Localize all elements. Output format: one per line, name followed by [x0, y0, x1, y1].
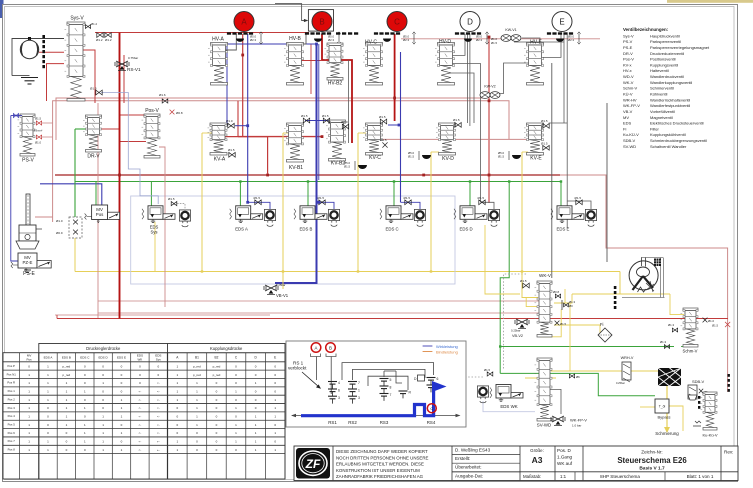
label psv area	[34, 129, 43, 133]
wire red kvD feed	[382, 138, 528, 140]
svg-text:<-: <-	[139, 448, 142, 452]
svg-text:Halteventil: Halteventil	[650, 68, 669, 73]
dashed shaft line	[42, 35, 45, 68]
orifice wkv r2	[555, 321, 567, 326]
svg-text:Überarbeitet:: Überarbeitet:	[455, 464, 482, 470]
wire yellow kv drops	[155, 133, 561, 337]
svg-text:WK-V: WK-V	[623, 80, 634, 85]
wire salmon y315	[55, 314, 270, 316]
svg-text:Ø1.0: Ø1.0	[35, 141, 42, 145]
orifice kvb1	[301, 114, 310, 123]
orifice wk-v	[520, 279, 529, 288]
svg-text:KV-E: KV-E	[530, 156, 542, 162]
svg-text:EDS C: EDS C	[386, 227, 399, 232]
junctions blue	[246, 43, 400, 204]
svg-text:Schmierventil: Schmierventil	[650, 86, 674, 91]
svg-text:Pos 5: Pos 5	[8, 423, 16, 427]
valve EDS E	[551, 206, 597, 227]
svg-text:Vorbefüllventil: Vorbefüllventil	[650, 109, 675, 114]
svg-text:Schm-V: Schm-V	[623, 86, 638, 91]
svg-text:B: B	[319, 18, 324, 27]
svg-text:<-: <-	[157, 398, 160, 402]
svg-text:Pos: Pos	[96, 212, 104, 217]
svg-text:Ventilbezeichnungen:: Ventilbezeichnungen:	[623, 27, 669, 32]
svg-text:Magnetventil: Magnetventil	[650, 115, 673, 120]
orifice kvd	[453, 118, 461, 127]
svg-text:Ø1.5: Ø1.5	[380, 138, 387, 142]
svg-text:Schm-V: Schm-V	[683, 349, 698, 354]
wire red bottom-left rise	[56, 315, 58, 319]
svg-text:A: A	[315, 346, 318, 351]
orifice kva bot	[228, 148, 235, 157]
svg-text:B1: B1	[195, 356, 199, 360]
svg-text:Kupplungsdrücke: Kupplungsdrücke	[210, 346, 243, 351]
svg-text:Ø1.0: Ø1.0	[226, 119, 233, 123]
torque converter	[622, 258, 665, 298]
wire gray edsD gauge	[481, 202, 494, 209]
svg-text:B2: B2	[215, 356, 219, 360]
svg-text:0.25bar: 0.25bar	[616, 381, 625, 385]
svg-text:Ø1.5: Ø1.5	[560, 322, 567, 326]
wire blue kva-eds	[235, 34, 248, 202]
svg-text:ZF: ZF	[305, 457, 321, 471]
svg-text:WD-V: WD-V	[623, 74, 634, 79]
filter Fi	[598, 322, 612, 342]
svg-text:EDS D: EDS D	[99, 356, 109, 360]
valve EDS-WK	[477, 385, 523, 403]
port labels D	[476, 32, 489, 44]
wire red kva drop	[237, 101, 239, 137]
svg-text:RS4: RS4	[427, 420, 436, 425]
wire blue kvc-eds	[388, 52, 401, 202]
actuator PS-E	[16, 194, 42, 249]
svg-text:Ø2.3: Ø2.3	[476, 38, 483, 42]
svg-text:Kupplungsventil: Kupplungsventil	[650, 62, 678, 67]
svg-text:Ø1.5: Ø1.5	[478, 196, 485, 200]
orifice posv	[170, 110, 183, 115]
wire thick red main x119	[119, 33, 121, 319]
label PS-E	[23, 271, 35, 277]
svg-text:WK-FP-V: WK-FP-V	[570, 418, 587, 423]
svg-text:Ø6: Ø6	[576, 375, 580, 379]
svg-text:Pos. D: Pos. D	[557, 448, 571, 453]
dotted wk line	[455, 274, 526, 377]
label Sys-V	[70, 16, 84, 22]
svg-text:Pos-V: Pos-V	[145, 108, 159, 114]
wire green staircase	[500, 373, 655, 395]
valve EDS D	[454, 206, 500, 227]
svg-text:ZAHNRADFABRIK FRIEDRICHSHAFEN: ZAHNRADFABRIK FRIEDRICHSHAFEN AG	[336, 474, 424, 479]
valve EDS B	[294, 206, 340, 227]
wire lavender edswk	[483, 401, 535, 412]
orifice psv red2	[35, 135, 53, 144]
svg-text:Fi: Fi	[600, 322, 604, 327]
clutch circle D	[460, 12, 480, 32]
wire lblue posv	[101, 93, 158, 205]
ports B right	[336, 32, 358, 34]
cooler	[658, 368, 681, 386]
wire gray B stub	[300, 34, 306, 44]
wire blue hva drop	[226, 44, 228, 126]
svg-text:<-: <-	[139, 390, 142, 394]
svg-text:E: E	[559, 18, 564, 27]
wire red bus y318	[57, 318, 728, 320]
svg-text:1:1: 1:1	[560, 474, 567, 479]
pump	[20, 39, 38, 59]
svg-text:1.0 bar: 1.0 bar	[572, 424, 581, 428]
junctions green	[239, 180, 562, 347]
wire dark-red bus y173	[55, 174, 560, 176]
valve KV-C	[363, 123, 383, 155]
svg-text:p_red: p_red	[193, 364, 201, 368]
svg-text:WK-V: WK-V	[539, 273, 552, 278]
wire blue A-B top	[227, 43, 317, 45]
valve WK-V	[535, 281, 553, 337]
valve EDS-Sys	[142, 206, 191, 227]
orifice EDS E	[575, 196, 583, 205]
valve KV-E	[524, 123, 544, 155]
svg-text:p_red: p_red	[213, 373, 221, 377]
svg-text:Erstellt:: Erstellt:	[455, 456, 470, 461]
label KV-B1	[289, 165, 303, 171]
svg-text:Ø1.5: Ø1.5	[379, 115, 386, 119]
svg-text:<-: <-	[139, 406, 142, 410]
svg-text:Ø1.3: Ø1.3	[668, 323, 675, 327]
svg-text:Ø2.3: Ø2.3	[250, 38, 257, 42]
svg-text:Ø1.2: Ø1.2	[96, 38, 103, 42]
svg-text:EDS A: EDS A	[235, 227, 248, 232]
orifice edswk	[484, 368, 493, 376]
wire red C drop	[394, 34, 396, 121]
orifice kuku	[712, 322, 730, 328]
svg-text:B: B	[329, 346, 332, 351]
label Schm-V	[683, 349, 698, 354]
wire gray b2 drop	[348, 60, 350, 143]
wire pale-red bus y98	[56, 98, 484, 140]
port labels B	[328, 32, 341, 44]
svg-text:<-: <-	[139, 415, 142, 419]
svg-text:Sys-V: Sys-V	[70, 16, 84, 22]
valve HV-B	[284, 43, 304, 86]
clutch circle E	[552, 12, 572, 32]
svg-text:Ø1.0: Ø1.0	[341, 120, 348, 124]
valve Pos-V	[142, 114, 161, 158]
wire gray D drops	[449, 34, 480, 202]
svg-text:Pos 4: Pos 4	[8, 414, 16, 418]
wire gray A stub	[225, 34, 236, 50]
svg-text:Ø1.2: Ø1.2	[91, 22, 98, 26]
checkvalve kvc	[380, 138, 388, 148]
valve HV-A	[208, 43, 228, 86]
label KV-A	[214, 157, 226, 163]
orifice EDS D	[478, 196, 486, 205]
svg-text:Blatt: 1 von 1: Blatt: 1 von 1	[687, 474, 714, 479]
svg-text:Pos R: Pos R	[7, 381, 15, 385]
orifice wkfp feed	[569, 374, 580, 379]
valve HV-C	[363, 43, 383, 86]
orifice schm feed	[660, 340, 670, 348]
svg-text:7: 7	[358, 381, 360, 385]
svg-text:HV-A: HV-A	[212, 37, 224, 43]
svg-text:KW-V2: KW-V2	[484, 85, 495, 89]
orifice EDS C	[404, 196, 412, 205]
valve MV-Pos	[85, 205, 120, 223]
clutch circle A	[234, 12, 254, 32]
svg-text:Ø2.3: Ø2.3	[403, 38, 410, 42]
svg-text:Steuerschema E26: Steuerschema E26	[617, 456, 687, 465]
svg-text:Ø1.0: Ø1.0	[708, 319, 715, 323]
svg-text:WK-FP-V: WK-FP-V	[623, 103, 640, 108]
wire gray kw-v2 link	[497, 63, 543, 94]
svg-text:EDS A: EDS A	[44, 356, 53, 360]
svg-text:p_red: p_red	[213, 364, 221, 368]
label EDS-Sys	[150, 225, 159, 235]
wire yellow left drop	[74, 238, 76, 272]
svg-text:VB-V1: VB-V1	[276, 293, 289, 298]
table clutch logic	[3, 344, 285, 480]
svg-text:Ø1.5: Ø1.5	[491, 41, 498, 45]
svg-text:D. Weßling ES43: D. Weßling ES43	[455, 448, 491, 453]
svg-text:7: 7	[390, 393, 392, 397]
svg-text:0.25bar: 0.25bar	[511, 329, 521, 333]
svg-text:Ø1.5: Ø1.5	[318, 196, 325, 200]
svg-text:Pos N1: Pos N1	[7, 372, 17, 376]
svg-text:0.25bar: 0.25bar	[276, 283, 286, 287]
junctions yellow	[201, 270, 523, 272]
svg-text:Parksperrenventil: Parksperrenventil	[650, 39, 681, 44]
wire salmon bus y301	[98, 300, 545, 302]
port labels A	[250, 32, 263, 44]
svg-text:Ø1.5: Ø1.5	[168, 197, 175, 201]
dots kuku	[698, 374, 730, 409]
wire green mvpos	[95, 182, 97, 206]
svg-text:verblockt: verblockt	[288, 366, 307, 371]
wire gray hvb box	[275, 4, 308, 23]
ports A	[227, 32, 253, 42]
wire yellow bus y267	[75, 271, 620, 273]
wire red sysv drain	[47, 64, 65, 101]
svg-text:Maßstab:: Maßstab:	[523, 474, 541, 479]
wire pale-red x98	[97, 103, 99, 319]
svg-text:Ku-KÜ-V: Ku-KÜ-V	[623, 132, 639, 137]
svg-text:3: 3	[358, 396, 360, 400]
valve Sys-V	[65, 22, 86, 101]
svg-text:Ø1.5: Ø1.5	[228, 148, 235, 152]
label RS-V1	[127, 56, 141, 72]
svg-text:Pos 8: Pos 8	[8, 448, 16, 452]
valve WRH-V	[616, 356, 634, 385]
label KV-B2	[331, 161, 345, 167]
label KV-E	[530, 156, 542, 162]
svg-text:Wandlerfestpunktventil: Wandlerfestpunktventil	[650, 103, 690, 108]
label HV-E	[530, 40, 542, 46]
svg-text:EDS B: EDS B	[62, 356, 71, 360]
svg-text:SV-WD: SV-WD	[537, 423, 551, 428]
port labels C	[403, 32, 416, 44]
svg-text:DR-V: DR-V	[87, 154, 100, 160]
svg-text:6: 6	[338, 389, 340, 393]
svg-text:Ø1.5: Ø1.5	[408, 155, 415, 159]
svg-text:<-: <-	[157, 423, 160, 427]
ground	[21, 78, 38, 85]
svg-text:DIESE ZEICHNUNG DARF WEDER KOP: DIESE ZEICHNUNG DARF WEDER KOPIERT	[336, 449, 428, 454]
labels hv-d orifices	[491, 37, 498, 45]
box around B	[308, 10, 333, 32]
svg-text:4: 4	[338, 381, 340, 385]
valve HV-E	[524, 43, 544, 86]
wire pale-red right path	[560, 175, 728, 392]
svg-text:Ø0.9: Ø0.9	[56, 231, 63, 235]
svg-text:Ø1.5: Ø1.5	[404, 196, 411, 200]
dashed orifice box	[56, 217, 82, 238]
wire red sysv top	[95, 32, 309, 34]
svg-text:WK: WK	[137, 357, 142, 361]
svg-text:Rev:: Rev:	[724, 450, 733, 455]
wire blue B main	[275, 44, 317, 283]
svg-text:Ø1.2: Ø1.2	[105, 38, 112, 42]
wire red x124	[123, 55, 125, 103]
valve SDB-V	[688, 379, 708, 426]
clutch port	[498, 151, 521, 160]
orifice kvb2 r	[341, 120, 349, 129]
svg-text:E: E	[274, 356, 276, 360]
svg-text:Ø1.5: Ø1.5	[484, 368, 491, 372]
wire red x489	[488, 37, 490, 203]
svg-text:p_red: p_red	[63, 373, 71, 377]
orifice wk-v r	[553, 290, 561, 298]
orifice psv blue	[13, 114, 18, 118]
wire red A drop	[242, 34, 244, 137]
wire blue edsB gauge	[319, 202, 334, 209]
svg-text:1.Gang: 1.Gang	[557, 455, 573, 460]
orifice top pair	[96, 33, 112, 42]
orifice sysv out	[90, 87, 102, 95]
svg-text:Druckreduzierventil: Druckreduzierventil	[650, 51, 684, 56]
svg-text:Filter: Filter	[650, 126, 660, 131]
label EDS E	[557, 227, 570, 232]
wire blue mvpos	[40, 184, 102, 205]
svg-text:PZ-E: PZ-E	[22, 260, 32, 265]
svg-text:RS1: RS1	[328, 420, 337, 425]
orifice mid right	[562, 300, 576, 310]
svg-text:Zeichn-Nr:: Zeichn-Nr:	[641, 450, 662, 455]
valve WK-FP-V	[550, 416, 587, 428]
label Ku-Kü-V	[702, 433, 717, 438]
svg-text:Größe:: Größe:	[530, 448, 544, 453]
svg-text:WK auf: WK auf	[557, 461, 573, 466]
svg-text:Ø1.3: Ø1.3	[660, 340, 667, 344]
ports D	[455, 32, 481, 42]
orifice EDS B	[318, 196, 326, 205]
svg-text:Parksperrenverriegelungsmagnet: Parksperrenverriegelungsmagnet	[650, 45, 710, 50]
svg-text:Pos 7: Pos 7	[8, 439, 16, 443]
valve KW-V1	[501, 28, 521, 41]
valve VB-V1	[263, 283, 289, 298]
window corner accent	[0, 0, 4, 18]
label PS-V	[22, 158, 34, 164]
ports E	[547, 32, 573, 42]
svg-text:1: 1	[358, 389, 360, 393]
valve Schm-V	[681, 308, 699, 347]
bypass box	[655, 399, 671, 420]
svg-text:EDS B: EDS B	[300, 227, 313, 232]
svg-text:Ø1.0: Ø1.0	[56, 219, 63, 223]
svg-text:ERLAUBNIS MITGETEILT WERDEN. D: ERLAUBNIS MITGETEILT WERDEN. DIESE	[336, 462, 424, 467]
svg-text:Wandlerkupplungsventil: Wandlerkupplungsventil	[650, 80, 692, 85]
svg-text:Pos P: Pos P	[7, 364, 15, 368]
wire yellow kva stub	[202, 133, 528, 152]
svg-text:A3: A3	[532, 455, 543, 465]
svg-text:PS-E: PS-E	[23, 271, 35, 277]
clutch circle C	[387, 12, 407, 32]
ports B	[305, 32, 331, 42]
svg-text:KV-B1: KV-B1	[289, 165, 303, 171]
svg-text:SDB-V: SDB-V	[623, 138, 636, 143]
label HV-D	[439, 39, 451, 45]
wire pale-red bus y101	[53, 101, 509, 222]
valve HV-B2	[325, 43, 344, 80]
svg-text:KV-D: KV-D	[442, 156, 454, 162]
wire yellow right net	[525, 272, 684, 434]
svg-text:Ø2.3: Ø2.3	[328, 38, 335, 42]
svg-text:HV-x: HV-x	[623, 68, 632, 73]
top-right tan strip	[667, 0, 753, 3]
wire blue psv	[11, 116, 22, 262]
svg-text:Positionsventil: Positionsventil	[650, 57, 676, 62]
wire red ps-e	[35, 216, 53, 218]
port labels E	[568, 32, 581, 44]
svg-text:4.9mm²: 4.9mm²	[34, 129, 43, 133]
svg-text:8: 8	[390, 386, 392, 390]
svg-text:PS-E: PS-E	[623, 45, 633, 50]
svg-text:Ø1.5: Ø1.5	[541, 119, 548, 123]
wire green mid drop	[500, 182, 509, 374]
svg-text:VB-V: VB-V	[623, 109, 633, 114]
wire gray edsE gauge	[567, 201, 591, 210]
svg-text:RS3: RS3	[380, 420, 389, 425]
wire green right	[500, 346, 687, 348]
svg-text:Wirkleistung: Wirkleistung	[436, 344, 458, 349]
suction line	[12, 37, 64, 76]
wire red B x311	[310, 44, 312, 94]
svg-text:Ø0.8: Ø0.8	[553, 290, 560, 294]
svg-text:Ø1.5: Ø1.5	[90, 87, 97, 91]
label EDS B	[300, 227, 313, 232]
svg-text:PS-V: PS-V	[623, 39, 633, 44]
svg-text:RS-V1: RS-V1	[127, 67, 141, 72]
valve Ku-Kü-V	[701, 392, 718, 430]
svg-text:p_red: p_red	[63, 364, 71, 368]
svg-text:EDS: EDS	[623, 121, 632, 126]
wire gray kw-v1 link	[522, 38, 540, 60]
svg-text:Schaltventil Wandler: Schaltventil Wandler	[650, 144, 687, 149]
svg-text:WR-HV: WR-HV	[623, 97, 637, 102]
svg-text:Pos-V: Pos-V	[623, 57, 634, 62]
wire blue edsA gauge	[248, 202, 270, 209]
orifice EDS A	[254, 196, 262, 205]
svg-text:Ø1.5: Ø1.5	[712, 324, 719, 328]
svg-text:Pos 3: Pos 3	[8, 406, 16, 410]
wire blue B second	[318, 44, 320, 180]
svg-text:Hauptdruckventil: Hauptdruckventil	[650, 33, 680, 38]
svg-text:HV-C: HV-C	[365, 40, 377, 46]
orifice kva top	[226, 119, 234, 128]
wire blue edsC gauge	[401, 202, 421, 209]
svg-text:<-: <-	[157, 381, 160, 385]
svg-text:DR-V: DR-V	[623, 51, 633, 56]
valve EDS C	[380, 206, 426, 227]
label SV-WD	[537, 423, 551, 428]
